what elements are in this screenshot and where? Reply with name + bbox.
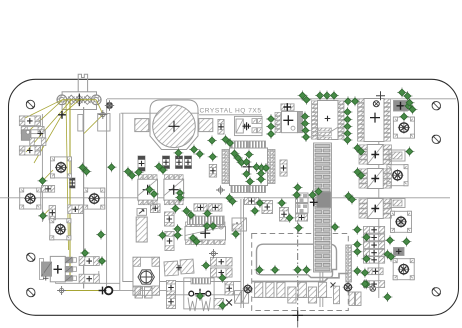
IC U6 (164, 175, 184, 205)
via TP63 (186, 210, 196, 220)
wire box-bl (56, 271, 120, 283)
node C pad (105, 100, 114, 111)
ratsnest W7 (66, 100, 69, 250)
resistor R17 (167, 295, 176, 309)
via TP6 (301, 132, 311, 142)
via TP67 (285, 213, 295, 223)
via TP78 (173, 230, 183, 240)
via TP43 (242, 169, 252, 179)
via TP94 (352, 225, 362, 235)
via TP30 (189, 145, 199, 155)
via TP58 (149, 189, 159, 199)
via TP88 (255, 265, 265, 275)
via TP68 (293, 183, 303, 193)
node tgt2 (57, 286, 66, 295)
via TP64 (250, 206, 260, 216)
trimmer VR1 (51, 157, 72, 178)
wire v-240 (241, 199, 244, 308)
component U16 (dark) (394, 248, 405, 256)
component U15 (dark) (394, 101, 408, 112)
ratsnest W8 (84, 100, 103, 134)
component U2 (top-left small IC) (19, 116, 40, 126)
connector J1 outline (62, 92, 96, 110)
via TP20 (408, 105, 418, 115)
via TP60 (175, 193, 185, 203)
crystal Y1 outline (150, 100, 198, 150)
board outline (9, 79, 459, 315)
via TP84 (218, 273, 228, 283)
via TP82 (208, 221, 218, 231)
via TP37 (242, 157, 252, 167)
node U4 pin1 (216, 186, 225, 195)
via TP106 (360, 268, 370, 278)
via TP77 (173, 224, 183, 234)
resistor R27 (151, 204, 161, 213)
via TP61 (171, 204, 181, 214)
mounting hole MH6 (432, 288, 440, 296)
via TP36 (244, 150, 254, 160)
via TP1 (298, 91, 308, 101)
mounting hole MH5 (27, 288, 35, 296)
resistor R34 (364, 257, 385, 264)
resistor R23 (69, 178, 75, 188)
component small1 (389, 150, 405, 161)
diode D4 (235, 291, 242, 304)
via TP3 (300, 112, 310, 122)
via TP93 (330, 222, 340, 232)
via TP65 (255, 198, 265, 208)
transistor Q3 (296, 193, 309, 203)
via TP39 (257, 163, 267, 173)
via TP112 (344, 191, 354, 201)
resistor R11 (49, 206, 55, 220)
via TP85 (203, 209, 213, 219)
via TP80 (192, 237, 202, 247)
crystal Y1 center (169, 121, 180, 132)
via TP75 (97, 256, 107, 266)
via TP9 (329, 91, 339, 101)
trimmer VR4 (50, 219, 71, 240)
via TP11 (350, 96, 360, 106)
via TP4 (300, 119, 310, 129)
trimmer VR2 (20, 188, 41, 209)
buzzer outline (257, 244, 337, 277)
label CRYSTAL HQ 7X5 (199, 108, 262, 115)
wire v-84 (83, 107, 85, 289)
resistor R25 (209, 204, 222, 211)
IC U14 (185, 222, 226, 245)
diode D5 (242, 291, 249, 304)
resistor R10 (42, 186, 55, 193)
via TP100 (362, 279, 372, 289)
via TP18 (403, 91, 413, 101)
connector J1 pin 5 (91, 95, 101, 105)
node ring (105, 287, 113, 295)
ratsnest W5 (26, 100, 71, 152)
centerline tick (293, 311, 304, 322)
node X mark (331, 283, 336, 288)
IC U13 (359, 199, 392, 219)
via TP50 (154, 162, 164, 172)
via TP27 (221, 135, 231, 145)
via TP79 (188, 233, 198, 243)
via TP92 (231, 229, 241, 239)
resistor R12 (68, 205, 83, 214)
via TP101 (383, 292, 393, 302)
via TP35 (237, 158, 247, 168)
ratsnest W6 (69, 100, 71, 279)
screw pad S2 (343, 282, 353, 292)
capacitor C8/C9 (164, 259, 194, 276)
component small2 (390, 199, 405, 208)
resistor R35 (368, 268, 383, 275)
via TP57 (145, 185, 155, 195)
resistor R16 (167, 281, 176, 295)
connector J1 stem (78, 74, 87, 92)
component parts near J4 (232, 218, 247, 231)
via TP54 (107, 162, 117, 172)
capacitor C7 (trimmer cap) (133, 257, 160, 295)
component Q1 pad (21, 130, 31, 141)
resistor R9 (209, 165, 216, 178)
resistor R36 (364, 281, 385, 288)
diode D2 (135, 287, 143, 298)
trimmer VR7 (391, 211, 412, 232)
via TP56 (38, 211, 48, 221)
wire mid-horizontal (0, 197, 450, 199)
resistor R24 (194, 204, 207, 211)
resistor R15 (211, 268, 233, 277)
capacitor C5 (296, 214, 308, 221)
via TP38 (252, 162, 262, 172)
dashed outline (display area) (252, 234, 349, 311)
via TP102 (385, 235, 395, 245)
svg-text:CRYSTAL HQ 7X5: CRYSTAL HQ 7X5 (200, 108, 262, 115)
ratsnest W2 (22, 100, 62, 120)
wire v-297 (297, 186, 299, 224)
diode D1 (polarity box) (137, 209, 147, 216)
via TP22 (405, 98, 415, 108)
wire inner-top (107, 98, 456, 100)
op-amp U4 (QFP) (222, 141, 275, 193)
IC U7 (235, 116, 263, 135)
via TP46 (228, 196, 238, 206)
via TP108 (353, 143, 363, 153)
via TP83 (201, 261, 211, 271)
ratsnest W9 (62, 290, 107, 292)
via TP17 (397, 88, 407, 98)
component R21 (281, 103, 294, 111)
via TP91 (302, 265, 312, 275)
via TP113 (347, 195, 357, 205)
resistor R30 (364, 227, 385, 234)
via TP69 (294, 223, 304, 233)
screw pad S1 (243, 284, 253, 294)
node cross mid (310, 198, 318, 206)
connector J2 (SIP column) (314, 143, 352, 282)
wire box-tr (78, 114, 110, 132)
via TP44 (245, 177, 255, 187)
via TP34 (233, 153, 243, 163)
via TP28 (225, 138, 235, 148)
resistor R26 (165, 212, 175, 226)
IC U11 (359, 145, 392, 165)
ratsnest W1 (62, 99, 96, 101)
via TP47 (123, 167, 133, 177)
connector J1 center mark (75, 94, 84, 107)
connector J3 (DC jack) (184, 278, 214, 311)
via TP2 (302, 95, 312, 105)
capacitor C10 (214, 299, 224, 310)
resistor R8 (185, 156, 192, 169)
trimmer VR6 (387, 165, 408, 186)
resistor R7 (176, 156, 183, 169)
mounting hole MH2 (432, 102, 440, 110)
trimmer VR8 (393, 259, 414, 280)
mounting hole MH4 (27, 253, 35, 261)
node W9 cross (99, 287, 107, 295)
via TP97 (352, 247, 362, 257)
via TP5 (301, 126, 311, 136)
component R2 (res) (26, 130, 45, 138)
trimmer VR5 (393, 117, 414, 138)
component C1 (cap) (21, 127, 44, 134)
resistor R5 (138, 156, 145, 171)
wire v-42 (41, 114, 43, 222)
node S3 (370, 286, 376, 292)
resistor R22 (280, 160, 287, 176)
resistor R14 (211, 258, 233, 267)
via TP72 (314, 187, 324, 197)
resistor R33 (364, 249, 385, 256)
via TP15 (343, 129, 353, 139)
crystal Y1 pad left (135, 119, 149, 132)
via TP53 (82, 167, 92, 177)
via TP7 (315, 91, 325, 101)
via TP111 (356, 171, 366, 181)
node A cross (58, 111, 66, 119)
via TP8 (322, 91, 332, 101)
capacitor C4 (280, 208, 289, 222)
capacitor C3 (262, 201, 273, 214)
via TP10 (343, 96, 353, 106)
mounting hole MH1 (26, 100, 34, 108)
via TP26 (207, 136, 217, 146)
ratsnest W10 (43, 170, 54, 216)
via TP19 (404, 101, 414, 111)
capacitor C6 (electrolytic) (136, 217, 147, 242)
via TP90 (293, 265, 303, 275)
via TP62 (182, 206, 192, 216)
via TP59 (175, 188, 185, 198)
via TP42 (256, 174, 266, 184)
via TP33 (230, 149, 240, 159)
via TP104 (383, 249, 393, 259)
component R4 (res) (218, 120, 224, 135)
IC U10 (DIP) (358, 91, 391, 141)
via TP66 (277, 198, 287, 208)
resistor R13 (165, 232, 174, 251)
wire v-320 (320, 272, 323, 307)
centerline (297, 226, 299, 328)
via TP73 (96, 230, 106, 240)
resistor R32 (364, 242, 385, 249)
IC U12 (359, 169, 392, 189)
via TP24 (266, 122, 276, 132)
resistor R6 (163, 156, 170, 169)
via TP31 (195, 149, 205, 159)
transistor Q4 (296, 204, 309, 214)
wire v-378 (378, 99, 380, 298)
wire h-294 (166, 294, 241, 296)
via TP12 (343, 107, 353, 117)
IC U9 (DIP) (312, 101, 345, 140)
via TP95 (362, 232, 372, 242)
transistor Q2 (regulator) (40, 256, 77, 281)
via TP48 (127, 171, 137, 181)
via TP70 (308, 190, 318, 200)
IC U5 (138, 175, 158, 205)
resistor R31 (364, 234, 385, 241)
wire h-113 (121, 112, 199, 114)
via TP29 (173, 148, 183, 158)
via TP74 (80, 248, 90, 258)
node tgt3 (209, 249, 218, 258)
crystal Y1 pad right (199, 119, 213, 132)
via TP45 (225, 193, 235, 203)
capacitor C2 (245, 198, 259, 205)
via TP110 (353, 167, 363, 177)
via TP40 (261, 163, 271, 173)
via TP16 (343, 135, 353, 145)
via TP87 (218, 301, 228, 311)
via TP105 (386, 252, 396, 262)
via TP49 (134, 167, 144, 177)
via TP13 (343, 115, 353, 125)
component R3 (res) (30, 138, 46, 146)
ratsnest W4 (34, 100, 79, 163)
via TP55 (38, 176, 48, 186)
wire v-120 (112, 113, 241, 290)
connector J4 (header) (188, 216, 225, 224)
component U3 (small IC) (19, 146, 40, 155)
IC U8 (275, 111, 303, 132)
via TP96 (352, 240, 362, 250)
diode D3 (145, 287, 153, 298)
via TP98 (362, 254, 372, 264)
ratsnest W3 (26, 100, 63, 134)
node R18 X (226, 300, 232, 306)
via TP25 (266, 129, 276, 139)
resistor R20 (79, 274, 99, 283)
node B target (98, 110, 107, 119)
via TP21 (399, 112, 409, 122)
via TP41 (256, 169, 266, 179)
via TP76 (158, 230, 168, 240)
connector J1 pins 2-4 (67, 95, 92, 104)
via TP51 (158, 165, 168, 175)
crystal Y1 body (153, 105, 196, 148)
via TP32 (208, 152, 218, 162)
trimmer VR3 (84, 188, 105, 209)
via TP107 (360, 279, 370, 289)
connector J5 pads (252, 274, 361, 306)
via TP103 (402, 237, 412, 247)
via TP52 (78, 163, 88, 173)
mounting hole MH3 (432, 135, 440, 143)
via TP109 (356, 147, 366, 157)
resistor R19 (79, 257, 99, 266)
via TP14 (343, 122, 353, 132)
via TP71 (292, 190, 302, 200)
via TP81 (202, 221, 212, 231)
connector J1 pin 1 (57, 95, 67, 105)
via TP99 (352, 266, 362, 276)
via TP114 (405, 147, 415, 157)
via TP23 (266, 114, 276, 124)
via TP89 (270, 265, 280, 275)
wire v-107 (106, 99, 108, 287)
resistor R18 (225, 282, 234, 296)
via TP86 (195, 291, 205, 301)
